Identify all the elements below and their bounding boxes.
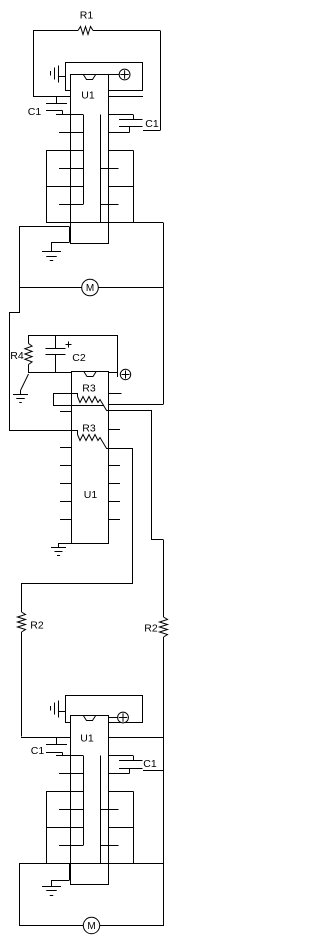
svg-text:R2: R2 [144, 623, 158, 635]
svg-text:C2: C2 [72, 352, 86, 364]
svg-text:R3: R3 [82, 423, 96, 435]
svg-text:R1: R1 [80, 10, 94, 22]
svg-text:U1: U1 [84, 489, 98, 501]
svg-text:U1: U1 [81, 90, 95, 102]
svg-text:R2: R2 [30, 620, 44, 632]
svg-text:M: M [86, 283, 94, 294]
svg-text:M: M [87, 921, 95, 932]
svg-text:C1: C1 [31, 745, 45, 757]
svg-text:U1: U1 [80, 733, 94, 745]
svg-text:C1: C1 [28, 106, 42, 118]
svg-text:C1: C1 [143, 758, 157, 770]
svg-text:C1: C1 [145, 118, 159, 130]
svg-text:R3: R3 [82, 383, 96, 395]
svg-text:R4: R4 [10, 350, 24, 362]
